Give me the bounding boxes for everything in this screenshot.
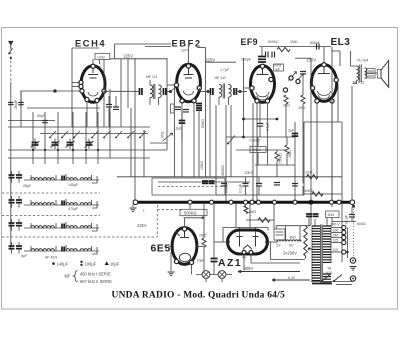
svg-text:385KΩ: 385KΩ — [221, 165, 225, 176]
resistor 2M az — [244, 206, 248, 214]
wire pot drop — [189, 204, 191, 210]
wire top rail seg0 — [115, 43, 172, 45]
svg-text:2KΩ: 2KΩ — [299, 106, 306, 110]
coil row 1 L-b — [43, 178, 54, 180]
bus junction ring 9 — [330, 200, 334, 204]
capacitor coupling a — [266, 52, 269, 58]
wire switch rail 1 — [27, 107, 100, 109]
junction on antenna lead — [10, 57, 12, 59]
coil row 2 L-a — [31, 203, 42, 205]
capacitor mid c — [221, 184, 227, 186]
svg-text:225V: 225V — [124, 54, 134, 59]
wire x110 bias — [109, 89, 111, 127]
coil row 4 L-a — [31, 249, 42, 251]
wire mains c up — [351, 207, 353, 215]
wire B+ rail mid — [206, 61, 237, 63]
wire switch vertical 3 — [57, 112, 59, 158]
svg-text:VOL: VOL — [161, 131, 165, 138]
coil row 4 right coil — [80, 249, 91, 251]
svg-text:2MμF: 2MμF — [14, 100, 18, 109]
wire EBF2 grid drop — [173, 85, 175, 177]
IF MF1 core — [154, 84, 155, 99]
power transformer core — [321, 225, 323, 283]
junction square grid rail — [54, 90, 57, 93]
wire EBF2 k2 down — [193, 103, 195, 177]
svg-text:450 kHz I SERIE: 450 kHz I SERIE — [80, 271, 111, 276]
switch output arrow 4 — [72, 158, 74, 164]
pin EBF2 d — [197, 86, 201, 90]
band switch contact S4 — [92, 131, 98, 138]
svg-text:500KΩ: 500KΩ — [184, 211, 197, 216]
wire x22 drop — [20, 91, 22, 108]
resistor box 50ohm — [326, 211, 340, 218]
pin ECH4 right — [102, 89, 106, 93]
coil row 1 end hooks — [31, 174, 97, 183]
wire x274 drop — [273, 204, 275, 229]
capacitor mid e — [292, 184, 298, 186]
wire B+ rail right — [295, 57, 311, 59]
rheostat wiper arrow — [308, 248, 313, 250]
wire tap 160 — [332, 232, 342, 234]
wire x311 long — [310, 58, 312, 225]
coil row 2 L-b — [43, 203, 54, 205]
pin EBF2 top — [186, 64, 190, 68]
svg-text:10μF: 10μF — [197, 259, 205, 263]
wire y137 — [226, 136, 295, 138]
pin EF9 k1 — [255, 99, 259, 103]
svg-text:UNDA RADIO - Mod. Quadri: UNDA RADIO - Mod. Quadri Unda 64/5 — [112, 290, 286, 301]
wire ECH4 grid row b — [72, 86, 81, 88]
resistor feedback — [307, 175, 319, 179]
coil row 4 end hooks — [31, 245, 97, 254]
wire grid rail — [21, 90, 81, 92]
junction 6E5 right — [196, 245, 199, 248]
coil row 1 L-c — [66, 178, 77, 180]
capacitor 500pF — [317, 44, 320, 50]
svg-text:125: 125 — [333, 239, 339, 243]
coil row 3 end hooks — [31, 222, 97, 231]
wire x253 down — [252, 103, 254, 201]
pin EBF2 k2 — [192, 99, 196, 103]
junction switch row 4 — [72, 149, 74, 151]
wire x204 drop — [203, 204, 205, 238]
capacitor 0.1uF b — [256, 184, 262, 186]
capacitor 2uF right — [292, 134, 299, 137]
tap socket 140 — [342, 235, 346, 239]
volume potentiometer arrow — [163, 133, 173, 141]
coil row 1 electrolytic capacitor — [9, 175, 15, 178]
svg-text:1MΩ: 1MΩ — [288, 150, 292, 158]
junction MF2 left — [207, 90, 210, 93]
IF MF2 secondary coil — [229, 85, 232, 98]
wire mains bottom 2 — [336, 284, 352, 286]
svg-text:2MΩ: 2MΩ — [249, 210, 257, 214]
wire EF9 g link — [244, 87, 250, 89]
IF MF1 secondary coil — [159, 85, 162, 98]
pin EBF2 g — [174, 83, 178, 87]
coil row 1 L-a — [31, 178, 42, 180]
wire left column B — [20, 91, 22, 127]
wire MF2 sec bot — [228, 97, 230, 105]
wire 6E5 k2 down — [191, 265, 193, 275]
wire MF2 left link — [199, 91, 210, 93]
dotted mains line — [353, 206, 355, 256]
svg-text:0.1μF: 0.1μF — [345, 215, 349, 224]
wire AZ1 anode feed a — [235, 204, 237, 228]
mains terminal 2 — [350, 276, 355, 281]
wire B+ rail left — [110, 58, 167, 60]
bus junction ring 1 — [188, 200, 192, 204]
coil row 4 electrolytic capacitor — [9, 246, 15, 249]
switch output arrow 5 — [85, 158, 87, 164]
svg-text:6V: 6V — [289, 244, 294, 248]
band switch contact S8 — [140, 131, 146, 138]
wire MF2 right link — [236, 91, 247, 93]
wire sel v1 — [275, 226, 277, 229]
tube ECH4 inner cathode — [88, 92, 98, 96]
coil row 4 L-c — [66, 249, 77, 251]
coil row 2 wire — [24, 204, 99, 206]
svg-text:EL3: EL3 — [331, 37, 351, 48]
capacitor mains a — [306, 214, 312, 216]
wire ECH4 c2 up — [115, 96, 117, 107]
pin EF9 top — [260, 64, 264, 68]
svg-text:MF: MF — [65, 274, 71, 279]
wire y119 link — [244, 118, 278, 120]
output transformer core — [360, 65, 362, 83]
wire switch rail 2 — [8, 120, 55, 122]
dial lamp P1 — [202, 271, 210, 279]
wire EBF2 grid link — [167, 84, 174, 86]
junction tap collector — [346, 251, 348, 253]
tube ECH4 inner grid bar — [88, 67, 98, 78]
coil row 2 L-c — [66, 203, 77, 205]
wire TA top lead a — [314, 219, 316, 226]
svg-text:40KΩ: 40KΩ — [305, 189, 314, 193]
tube ECH4 envelope — [81, 66, 105, 103]
wire x260 cap — [259, 100, 261, 123]
svg-text:TA: TA — [327, 267, 332, 271]
wire x303 drop2 — [302, 104, 304, 184]
pin EF9 g — [250, 86, 254, 90]
svg-text:MF 112: MF 112 — [215, 76, 227, 80]
coil row 1 wire — [24, 179, 99, 181]
junction MF1 right — [169, 90, 172, 93]
chassis box dashed divider — [158, 186, 225, 188]
coil row 4 core winding — [62, 247, 64, 252]
wire EL3 anode link — [332, 50, 340, 52]
wire vol row — [150, 142, 167, 144]
svg-text:225V: 225V — [206, 57, 216, 62]
coil row 3 L-b — [43, 226, 54, 228]
tap socket 160 — [342, 230, 346, 234]
wire x226 drop — [225, 105, 227, 201]
wire AZ1 HV out path — [267, 242, 305, 260]
capacitor ECH4 cathode — [106, 105, 112, 107]
wire OT lead — [339, 51, 341, 66]
wire MF1 pri top — [149, 80, 151, 85]
wire ECH4 grid row a — [72, 82, 81, 84]
wire AZ1 k1 down — [243, 254, 245, 270]
antenna series trimmer — [9, 48, 13, 54]
pin EF9 k2 — [265, 99, 269, 103]
wire tap 110 — [332, 251, 342, 253]
wire x131 mid — [130, 108, 132, 177]
fuse box stripes — [276, 232, 284, 235]
wire MF1 pri bot — [149, 98, 151, 105]
wire x338 link — [337, 84, 339, 122]
tube EL3 envelope — [311, 65, 336, 102]
dotted line end square a — [352, 205, 355, 208]
wire tap 140 — [332, 237, 342, 239]
tube 6E5 inner target — [177, 230, 190, 238]
bus end terminal — [350, 200, 355, 205]
capacitor EF9 top stack b — [258, 58, 266, 60]
transformer bottom edge — [312, 283, 332, 285]
svg-text:4V: 4V — [242, 255, 247, 259]
coil row 3 L-a — [31, 226, 42, 228]
output transformer TU304 secondary — [365, 68, 367, 78]
svg-text:6,3V: 6,3V — [288, 276, 296, 280]
svg-text:500Ω: 500Ω — [357, 222, 366, 226]
AZ1 filament vee — [243, 245, 252, 249]
junction switch row 3 — [57, 149, 59, 151]
tube 6E5 envelope — [172, 228, 197, 265]
tube 6E5 inner cathode — [179, 253, 190, 261]
wire switch rail 5 — [8, 149, 167, 151]
svg-text:110: 110 — [333, 248, 339, 252]
wire EBF2 k1 down — [181, 103, 183, 177]
bus junction ring 8 — [293, 200, 297, 204]
filament winding row — [277, 240, 301, 242]
wire AZ1 anode b — [255, 228, 257, 237]
capacitor MF2 tune a — [211, 88, 213, 95]
potentiometer box 500K — [180, 209, 207, 215]
wire x216 drop — [215, 105, 217, 195]
junction switch row 1 — [32, 149, 34, 151]
chassis ground bus — [134, 201, 352, 204]
svg-text:MF 1/3: MF 1/3 — [146, 75, 157, 79]
wire y182 — [158, 181, 250, 183]
svg-text:6E5: 6E5 — [151, 244, 171, 255]
wire MF2 pri bot — [218, 97, 220, 105]
junction EF9 avc — [242, 136, 245, 139]
pin AZ1 k2 — [249, 250, 253, 254]
tone potentiometer arrows — [289, 72, 304, 83]
pin ECH4 k1 — [85, 97, 89, 101]
wire x258 seg2 — [257, 153, 259, 166]
ground symbol main — [130, 208, 137, 212]
wire TA top lead b — [326, 218, 328, 226]
bus left end ring — [133, 200, 138, 205]
switch output arrow 2 — [44, 158, 46, 164]
wire x342 long — [341, 122, 343, 262]
svg-text:16μF: 16μF — [110, 262, 120, 267]
coil row 1 core winding — [62, 176, 64, 181]
coil row 3 core winding — [62, 224, 64, 229]
band switch contact S2 — [62, 131, 68, 138]
wire y194 seg — [304, 193, 342, 195]
capacitor input B — [18, 103, 24, 105]
coil bank dashed shield 3 — [2, 236, 157, 238]
switch output arrow 1 — [32, 158, 34, 164]
wire ECH4 label underline — [72, 47, 99, 49]
wire x295 long — [294, 122, 296, 201]
tube EBF2 envelope — [177, 64, 201, 102]
wire bus ground stub — [132, 204, 134, 208]
mains terminal 1 — [350, 258, 355, 263]
wire MF1 to EBF2 grid — [166, 87, 177, 92]
wire 300V arrow line — [238, 270, 300, 273]
coil row 1 right coil — [80, 178, 91, 180]
junction y119 b — [276, 118, 279, 121]
pin 6E5 top — [182, 227, 186, 231]
legend dot symbol — [52, 262, 55, 265]
speaker voice coil box — [367, 69, 376, 79]
legend brace — [74, 271, 78, 282]
svg-text:40Ω: 40Ω — [289, 235, 296, 239]
band switch contact S6 — [116, 131, 122, 138]
wire y195 — [216, 194, 304, 196]
wire EL3 grid top — [323, 47, 325, 64]
pin ECH4 g3 — [80, 89, 84, 93]
svg-text:TU 304: TU 304 — [357, 59, 369, 63]
pin ECH4 k2 — [95, 98, 99, 102]
ground symbol 6E5 — [168, 272, 175, 276]
pin EL3 s — [334, 78, 338, 82]
junction switch row 5 — [85, 149, 87, 151]
wire x260 cap b — [259, 126, 261, 137]
svg-text:470μF: 470μF — [68, 207, 78, 211]
resistor smoothing — [258, 218, 270, 222]
svg-text:667 kHz II SERIE: 667 kHz II SERIE — [80, 279, 112, 284]
wave-change switch contact mid — [228, 136, 235, 144]
svg-text:50Ω: 50Ω — [328, 213, 335, 217]
wire y177 long rail — [117, 176, 342, 178]
svg-text:140μF: 140μF — [57, 262, 69, 267]
junction switch row 6 — [97, 149, 99, 151]
coil bank dashed shield 1 — [2, 192, 100, 194]
wire AZ1 anode feed b — [249, 204, 251, 228]
coil row 3 L-c — [66, 226, 77, 228]
capacitor MF1 tune a — [140, 88, 142, 95]
bus junction ring 6 — [257, 200, 261, 204]
pin ECH4 g2 — [79, 84, 83, 88]
pin EF9 s — [269, 77, 273, 81]
svg-text:100μF: 100μF — [85, 262, 97, 267]
wire ECH4 k1 down — [86, 102, 88, 127]
pin tone b — [289, 76, 293, 80]
wire x286 down — [285, 104, 287, 137]
wire x128 bias — [127, 59, 129, 108]
capacitor EF9 top stack c — [258, 61, 266, 63]
voltage box +20V — [95, 53, 110, 59]
wire x214 drop — [213, 204, 215, 259]
svg-text:+20V: +20V — [97, 55, 106, 59]
rheostat mains dropper — [304, 226, 308, 259]
band switch contact S1 — [50, 131, 56, 138]
wire x182 lower — [181, 123, 183, 140]
antenna lead-in wire (dashed) — [10, 48, 12, 83]
junction MF2 right — [239, 90, 242, 93]
svg-text:10KΩ: 10KΩ — [200, 161, 204, 170]
capacitor EBF2 cathode — [175, 107, 181, 109]
wire x303 drop3 — [302, 186, 304, 195]
svg-text:300V: 300V — [244, 266, 254, 271]
junction switch row 2 — [44, 149, 46, 151]
wire 6E5 k1 down — [170, 252, 172, 271]
svg-text:1.7μF: 1.7μF — [220, 68, 229, 72]
wire EL3 g drop — [302, 74, 304, 95]
coil row 2 electrolytic capacitor — [9, 200, 15, 203]
capacitor mains b — [313, 214, 319, 216]
bus junction ring 7 — [273, 200, 277, 204]
svg-text:EF: EF — [276, 68, 280, 72]
capacitor EF9 top stack a — [258, 56, 266, 58]
pin ECH4 g1 — [79, 80, 83, 84]
resistor 2M 6E5 — [202, 238, 206, 247]
svg-text:ECH4: ECH4 — [75, 39, 106, 49]
wire tap 220 V — [332, 227, 342, 229]
bus junction ring 10 — [337, 200, 341, 204]
capacitor EBF2 bypass — [183, 110, 189, 112]
tube AZ1 anode plates — [237, 237, 259, 247]
svg-text:750KΩ: 750KΩ — [279, 153, 283, 164]
capacitor EL3 grid — [300, 72, 306, 74]
wire EF9 k1 down — [256, 103, 258, 201]
trimmer capacitor CT4 — [86, 143, 93, 146]
dashed link to tuning indicator h — [157, 209, 183, 211]
wire x250 seg — [245, 177, 247, 184]
wire top rail seg3 — [259, 46, 331, 48]
tube EF9 inner anode — [257, 66, 269, 75]
svg-text:2MΩ: 2MΩ — [199, 234, 207, 238]
wire EF9 left lead — [243, 58, 245, 137]
bus junction ring 5 — [250, 200, 254, 204]
box POT EF — [274, 64, 284, 71]
wire switch vertical 7 — [109, 112, 111, 158]
wire EL3 k1 down — [316, 103, 318, 177]
wire x304 seg — [303, 122, 305, 195]
wire x277 seg2 — [276, 161, 278, 177]
wire x167 long — [166, 58, 168, 150]
wire y122 link — [304, 121, 342, 123]
wire AZ1 anode a — [239, 228, 241, 237]
wire AZ1 k2 down — [250, 254, 252, 263]
svg-text:20KΩ: 20KΩ — [245, 171, 254, 175]
wire x204 drop2 — [203, 247, 205, 271]
wire y165 — [255, 164, 295, 166]
capacitor mid 1uF — [257, 124, 264, 127]
wire x199 drop — [198, 110, 200, 177]
wire EBF2 diode drop — [198, 88, 200, 92]
svg-text:1KΩ: 1KΩ — [306, 171, 313, 175]
wire ECH4 k2 down — [96, 103, 98, 127]
band switch contact S7 — [128, 131, 134, 138]
wire lamp1 stub — [205, 278, 207, 282]
svg-text:225V: 225V — [137, 223, 147, 228]
transformer left edge — [312, 226, 331, 282]
wire x287 seg — [286, 137, 288, 145]
coil row 4 wire — [24, 250, 99, 252]
wire y263 link — [251, 262, 300, 264]
antenna A1 — [9, 41, 13, 45]
coil row 3 right coil — [80, 226, 91, 228]
svg-text:160: 160 — [333, 229, 339, 233]
power transformer TA primary winding — [312, 226, 320, 281]
power transformer TA secondary winding lower — [323, 274, 331, 282]
resistor 2K cathode — [284, 95, 288, 104]
